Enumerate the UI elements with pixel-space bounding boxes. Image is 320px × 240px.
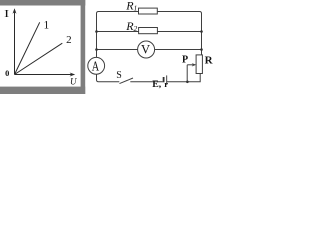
svg-text:I: I [4,9,10,20]
svg-text:0: 0 [5,69,9,78]
svg-text:1: 1 [44,19,50,31]
svg-text:E,: E, [152,79,162,90]
svg-text:S: S [116,70,122,81]
svg-text:R: R [205,54,214,66]
svg-text:P: P [182,55,188,66]
svg-text:A: A [92,58,100,73]
svg-text:V: V [141,43,150,57]
svg-text:2: 2 [66,34,72,46]
svg-text:U: U [70,77,77,87]
svg-text:r: r [164,79,168,89]
